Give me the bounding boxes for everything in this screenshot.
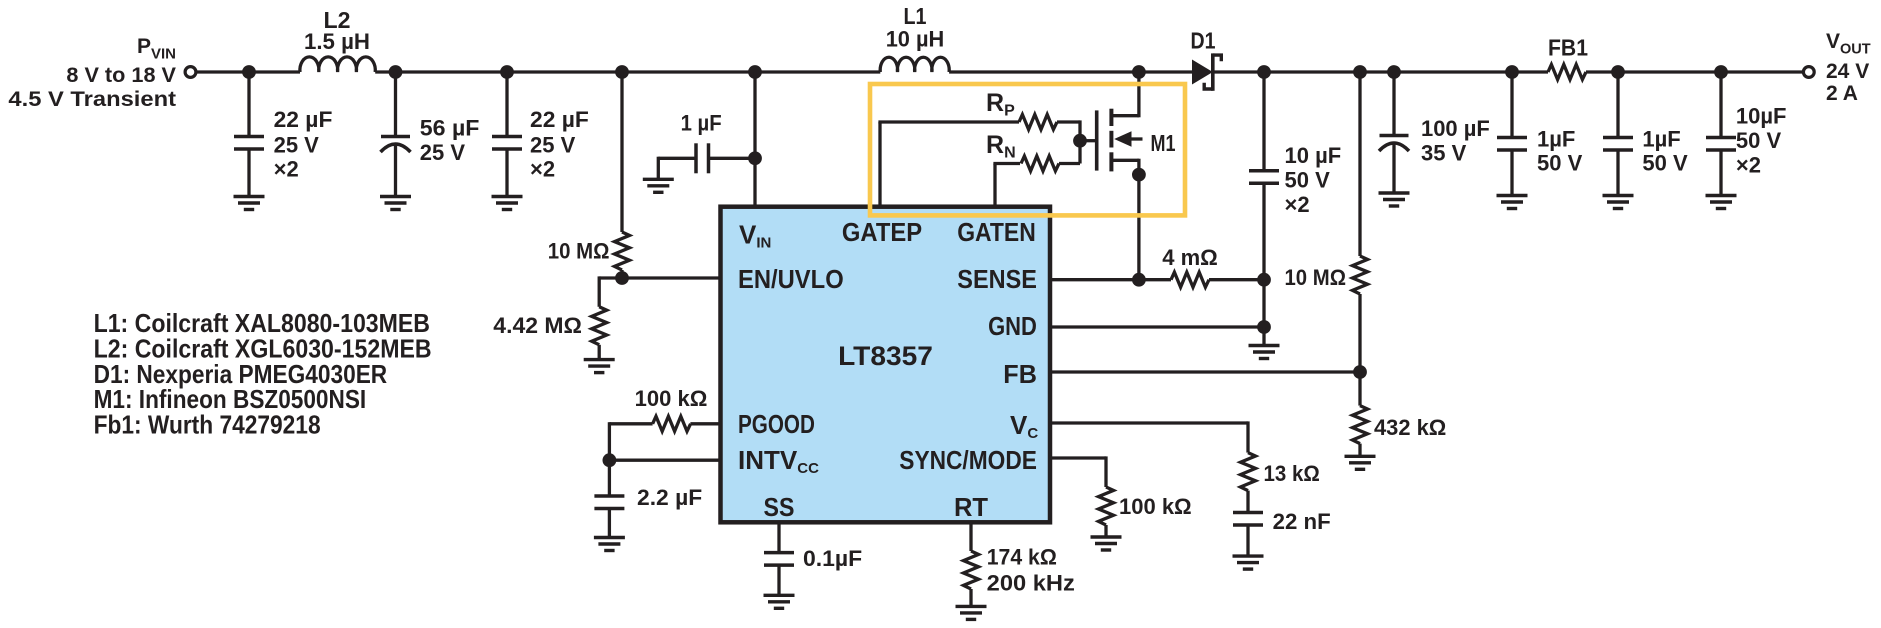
- svg-text:10 µF: 10 µF: [1285, 143, 1342, 168]
- node junction input cap 3: [500, 65, 514, 79]
- node M1 drain on rail: [1132, 65, 1146, 79]
- svg-text:22 µF: 22 µF: [274, 107, 333, 132]
- note BOM list: [94, 308, 432, 440]
- wire top rail L1 to D1: [949, 70, 1192, 73]
- wire 432k to ground: [1358, 444, 1361, 457]
- svg-text:GND: GND: [988, 311, 1037, 341]
- node junction 1uF: [748, 151, 762, 165]
- svg-text:GATEN: GATEN: [957, 217, 1036, 247]
- wire cap1 lower stem: [247, 149, 250, 197]
- svg-text:GATEP: GATEP: [842, 217, 922, 247]
- node junction 1uF out2: [1611, 65, 1625, 79]
- wire top rail L2 to L1: [375, 70, 880, 73]
- transistor M1 MOSFET: [1097, 70, 1143, 174]
- node junction 10M FB top: [1353, 65, 1367, 79]
- ground 1uF out2: [1603, 196, 1634, 209]
- ground 2.2uF: [594, 538, 625, 551]
- svg-text:FB: FB: [1003, 359, 1037, 389]
- wire 4.42M to ground: [598, 345, 601, 360]
- wire 1uF to ground: [657, 157, 660, 180]
- svg-text:56 µF: 56 µF: [420, 116, 480, 141]
- resistor RN: [1021, 156, 1059, 171]
- wire gate node vertical lower: [1078, 141, 1081, 164]
- node junction sense right: [1257, 273, 1271, 287]
- svg-text:174 kΩ: 174 kΩ: [987, 545, 1057, 570]
- resistor 10 Mohm FB upper: [1353, 256, 1368, 294]
- ground GND pin: [1249, 346, 1280, 359]
- wire VC line: [1052, 421, 1248, 424]
- capacitor 1uF 50V out1: [1497, 138, 1527, 151]
- wire GATEN horizontal to RN: [993, 162, 1020, 165]
- wire 10M FB to FB node: [1358, 294, 1361, 372]
- wire SENSE line: [1052, 278, 1171, 281]
- wire RP to gate node: [1057, 120, 1080, 123]
- svg-text:35 V: 35 V: [1421, 141, 1467, 166]
- wire 10uF out lower stem: [1719, 150, 1722, 196]
- node M1 source: [1132, 168, 1146, 182]
- wire VC down: [1246, 421, 1249, 452]
- resistor 10 Mohm EN upper: [615, 232, 630, 270]
- ground SS: [764, 595, 795, 608]
- highlight box gate network: [870, 84, 1185, 215]
- node junction input cap 1: [242, 65, 256, 79]
- svg-text:FB1: FB1: [1548, 35, 1588, 61]
- svg-text:0.1µF: 0.1µF: [803, 546, 862, 571]
- wire FB line: [1052, 370, 1360, 373]
- svg-text:10 MΩ: 10 MΩ: [1285, 265, 1347, 290]
- node junction 56uF cap: [389, 65, 403, 79]
- capacitor 56uF 25V polarized (C2): [381, 137, 411, 153]
- svg-text:100 kΩ: 100 kΩ: [635, 386, 708, 411]
- svg-text:4.5 V Transient: 4.5 V Transient: [8, 88, 176, 111]
- inductor L2: [300, 57, 375, 72]
- ground 10uF out: [1706, 196, 1737, 209]
- node junction INTVCC: [603, 453, 617, 467]
- wire 1uF right lead: [709, 157, 756, 160]
- svg-text:50 V: 50 V: [1642, 151, 1688, 176]
- wire 100uF upper stem: [1392, 72, 1395, 136]
- svg-text:25 V: 25 V: [274, 132, 320, 157]
- wire 56uF upper stem: [394, 72, 397, 137]
- wire 1uF left lead: [658, 157, 696, 160]
- ground VC: [1233, 556, 1264, 569]
- svg-text:200 kHz: 200 kHz: [987, 571, 1075, 596]
- svg-text:M1: M1: [1151, 130, 1176, 156]
- wire 1uF out1 upper stem: [1510, 72, 1513, 138]
- capacitor 22uF x2 input (C1): [234, 137, 264, 150]
- svg-text:432 kΩ: 432 kΩ: [1374, 415, 1446, 440]
- wire 1uF out2 lower stem: [1616, 150, 1619, 196]
- wire INTVCC line: [609, 459, 718, 462]
- ground SYNC: [1091, 537, 1122, 550]
- wire FB node to 432k: [1358, 372, 1361, 406]
- node junction EN: [615, 271, 629, 285]
- wire gate node vertical upper: [1078, 120, 1081, 140]
- terminal VOUT: [1803, 67, 1814, 78]
- wire PGOOD line left: [609, 422, 652, 425]
- svg-text:L1: L1: [904, 3, 927, 29]
- ground cap1: [234, 197, 265, 210]
- wire cap3 upper stem: [505, 72, 508, 137]
- node gate: [1073, 134, 1087, 148]
- ground 432k: [1345, 456, 1376, 469]
- wire 10M to EN line: [620, 270, 623, 278]
- capacitor 0.1uF SS: [764, 553, 794, 566]
- svg-text:50 V: 50 V: [1285, 168, 1331, 193]
- resistor 100 kohm PGOOD: [653, 416, 691, 431]
- wire 100uF lower stem: [1392, 143, 1395, 194]
- wire 56uF lower stem: [394, 144, 397, 197]
- svg-text:SYNC/MODE: SYNC/MODE: [899, 445, 1037, 475]
- ground 56uF: [380, 197, 411, 210]
- capacitor 10uF 50V x2 (sense): [1249, 171, 1279, 184]
- wire RN to gate node: [1059, 162, 1080, 165]
- svg-text:50 V: 50 V: [1537, 151, 1583, 176]
- wire SYNC 100k to ground: [1104, 525, 1107, 537]
- wire SYNC/MODE line: [1052, 456, 1106, 459]
- wire GND line: [1052, 325, 1264, 328]
- capacitor 100uF 35V polarized: [1379, 136, 1409, 152]
- wire top rail D1 to FB1: [1213, 70, 1548, 73]
- ferrite bead FB1: [1548, 65, 1586, 80]
- capacitor 2.2uF INTVCC: [594, 496, 624, 509]
- resistor 432 kohm: [1353, 406, 1368, 444]
- svg-text:4.42 MΩ: 4.42 MΩ: [493, 313, 582, 338]
- diode D1 (Schottky): [1192, 53, 1221, 90]
- wire GATEP horizontal to RP: [878, 120, 1019, 123]
- capacitor 1uF INTVCC bypass: [696, 143, 709, 173]
- ground 4.42M: [584, 360, 615, 373]
- resistor 100 kohm SYNC: [1099, 487, 1114, 525]
- svg-text:2 A: 2 A: [1826, 82, 1858, 105]
- wire 10M upper stem: [620, 72, 623, 232]
- wire GND stem: [1262, 327, 1265, 346]
- node junction VIN: [748, 65, 762, 79]
- ground 1uF out1: [1497, 196, 1528, 209]
- svg-text:1µF: 1µF: [1642, 127, 1680, 152]
- ground 1uF: [643, 179, 674, 192]
- wire EN down to 4.42M: [598, 276, 601, 306]
- resistor 13 kohm VC: [1241, 453, 1256, 491]
- wire EN/UVLO line: [599, 276, 718, 279]
- svg-text:24 V: 24 V: [1826, 60, 1869, 83]
- ground RT: [956, 606, 987, 619]
- wire GATEP vertical: [878, 122, 881, 206]
- ground cap3: [492, 197, 523, 210]
- svg-text:EN/UVLO: EN/UVLO: [738, 264, 844, 294]
- svg-text:1µF: 1µF: [1537, 127, 1575, 152]
- svg-text:SS: SS: [764, 492, 795, 522]
- wire 4mohm to node: [1209, 278, 1264, 281]
- svg-text:10µF: 10µF: [1736, 104, 1787, 129]
- wire 22nF to ground: [1246, 525, 1249, 556]
- resistor RP: [1019, 115, 1057, 130]
- node junction 10uF sense cap: [1257, 65, 1271, 79]
- svg-text:8 V to 18 V: 8 V to 18 V: [66, 64, 176, 87]
- svg-text:22 nF: 22 nF: [1273, 509, 1331, 534]
- wire PGOOD line right: [690, 422, 718, 425]
- node junction SENSE-M1: [1132, 273, 1146, 287]
- wire RT stem: [969, 522, 972, 551]
- wire INTVCC to 2.2uF: [608, 460, 611, 496]
- capacitor 1uF 50V out2: [1603, 138, 1633, 151]
- svg-text:LT8357: LT8357: [838, 341, 933, 371]
- svg-text:100 µF: 100 µF: [1421, 116, 1490, 141]
- wire SYNC down: [1104, 456, 1107, 487]
- wire M1 source to SENSE: [1137, 175, 1140, 280]
- resistor 174 kohm RT: [964, 551, 979, 589]
- svg-text:4 mΩ: 4 mΩ: [1162, 245, 1218, 270]
- node junction 10M EN divider: [615, 65, 629, 79]
- wire 13k to 22nF: [1246, 491, 1249, 513]
- op-amp U1 LT8357 IC body: [721, 207, 1051, 523]
- wire gate lead: [1080, 139, 1095, 142]
- svg-text:2.2 µF: 2.2 µF: [637, 485, 702, 510]
- node junction FB: [1353, 365, 1367, 379]
- svg-text:50 V: 50 V: [1736, 128, 1782, 153]
- wire GATEN vertical: [993, 164, 996, 207]
- capacitor 22uF x2 input (C3): [492, 137, 522, 150]
- wire PGOOD down to INTVCC: [608, 422, 611, 460]
- wire 10uF lower stem to SENSE: [1262, 183, 1265, 279]
- svg-text:10 µH: 10 µH: [886, 27, 945, 52]
- wire cap1 upper stem: [247, 72, 250, 137]
- wire top rail FB1 to VOUT: [1586, 70, 1803, 73]
- svg-text:×2: ×2: [1285, 192, 1310, 217]
- resistor 4 mohm sense: [1171, 272, 1209, 287]
- node junction 1uF out1: [1505, 65, 1519, 79]
- svg-text:×2: ×2: [274, 157, 299, 182]
- inductor L1: [880, 57, 949, 72]
- svg-text:22 µF: 22 µF: [530, 107, 589, 132]
- svg-text:×2: ×2: [1736, 152, 1761, 177]
- wire 10M FB upper stem: [1358, 72, 1361, 256]
- wire SS stem: [777, 522, 780, 553]
- svg-text:25 V: 25 V: [530, 132, 576, 157]
- svg-text:10 MΩ: 10 MΩ: [548, 239, 610, 264]
- svg-text:SENSE: SENSE: [957, 264, 1037, 294]
- svg-text:1.5 µH: 1.5 µH: [304, 29, 370, 54]
- svg-text:Fb1: Wurth 74279218: Fb1: Wurth 74279218: [94, 410, 321, 440]
- capacitor 22 nF VC: [1233, 513, 1263, 526]
- ground 100uF: [1379, 193, 1410, 206]
- wire VIN drop: [753, 72, 756, 206]
- wire 10uF out upper stem: [1719, 72, 1722, 138]
- svg-text:25 V: 25 V: [420, 140, 466, 165]
- wire cap3 lower stem: [505, 149, 508, 197]
- terminal PVIN: [185, 67, 196, 78]
- svg-text:D1: D1: [1191, 28, 1216, 54]
- resistor 4.42 Mohm: [592, 307, 607, 345]
- svg-text:13 kΩ: 13 kΩ: [1264, 461, 1320, 486]
- svg-text:1 µF: 1 µF: [681, 111, 722, 136]
- wire SS cap to ground: [777, 565, 780, 595]
- node junction GND: [1257, 320, 1271, 334]
- svg-text:PGOOD: PGOOD: [738, 409, 815, 439]
- node junction 10uF out: [1714, 65, 1728, 79]
- capacitor 10uF 50V x2 out: [1706, 138, 1736, 151]
- node junction 100uF: [1387, 65, 1401, 79]
- wire 1uF out1 lower stem: [1510, 150, 1513, 196]
- wire sense node down to gnd node: [1262, 280, 1265, 327]
- svg-text:100 kΩ: 100 kΩ: [1119, 494, 1192, 519]
- wire top rail PVIN to L2: [197, 70, 301, 73]
- svg-text:×2: ×2: [530, 157, 555, 182]
- wire RT to ground: [969, 589, 972, 606]
- svg-text:RT: RT: [954, 492, 988, 522]
- wire 1uF out2 upper stem: [1616, 72, 1619, 138]
- wire 2.2uF to ground: [608, 509, 611, 538]
- wire 10uF upper stem: [1262, 72, 1265, 171]
